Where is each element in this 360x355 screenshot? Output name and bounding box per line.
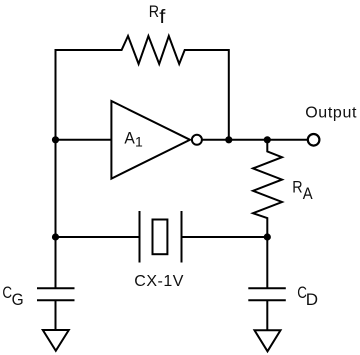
svg-text:A: A [303, 185, 313, 203]
svg-text:D: D [306, 290, 318, 309]
svg-text:R: R [149, 3, 159, 21]
svg-text:Output: Output [305, 104, 357, 121]
svg-text:A: A [124, 129, 135, 148]
svg-text:CX-1V: CX-1V [134, 273, 184, 290]
svg-text:f: f [159, 6, 165, 27]
svg-text:G: G [12, 290, 24, 309]
svg-text:C: C [2, 284, 12, 303]
svg-text:1: 1 [135, 134, 143, 150]
svg-text:R: R [292, 178, 302, 196]
